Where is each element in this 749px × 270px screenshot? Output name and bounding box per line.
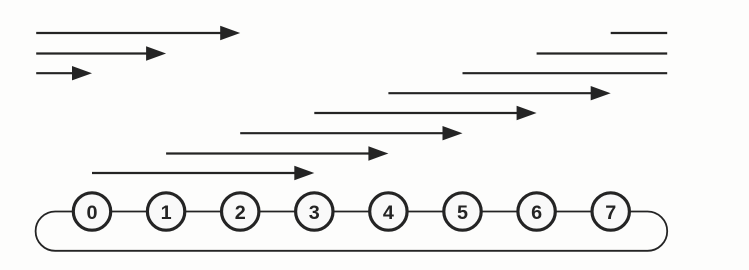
svg-text:4: 4 [383, 202, 394, 224]
svg-text:3: 3 [309, 202, 320, 224]
svg-text:2: 2 [235, 202, 246, 224]
svg-text:1: 1 [161, 202, 172, 224]
svg-text:0: 0 [86, 202, 97, 224]
svg-text:7: 7 [605, 202, 616, 224]
svg-text:5: 5 [457, 202, 468, 224]
svg-text:6: 6 [531, 202, 542, 224]
